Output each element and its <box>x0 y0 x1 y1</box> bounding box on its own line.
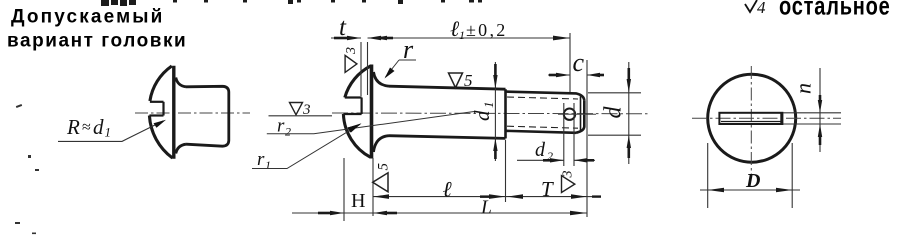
slot bottom line <box>361 98 363 115</box>
svg-text:L: L <box>480 198 492 219</box>
d ext top <box>588 92 641 94</box>
T left arrow <box>507 194 523 199</box>
svg-text:вариант головки: вариант головки <box>7 31 187 52</box>
svg-text:d: d <box>601 106 627 119</box>
shoulder step <box>504 89 507 138</box>
variant slot bottom line <box>162 102 164 116</box>
d1 dim line <box>494 62 496 161</box>
r1 underline and leader <box>252 125 360 169</box>
d bottom arrow <box>627 135 631 148</box>
svg-text:3: 3 <box>344 47 359 55</box>
slot top edge <box>345 96 362 98</box>
scan specks <box>15 104 39 234</box>
svg-text:d: d <box>535 139 546 161</box>
D ext line left <box>707 143 709 208</box>
cotter hole <box>564 109 575 120</box>
ext line bearing bottom <box>372 158 374 216</box>
ext line t left <box>360 42 362 96</box>
svg-text:5: 5 <box>464 71 473 90</box>
hidden line bottom <box>507 126 578 128</box>
variant shank bottom edge <box>186 141 229 147</box>
D left arrow <box>708 188 724 193</box>
r1 arrowhead <box>348 123 362 132</box>
D right arrow <box>776 188 792 193</box>
svg-text:H: H <box>351 190 365 212</box>
d1 bottom arrow <box>493 138 497 151</box>
svg-text:2: 2 <box>547 149 553 163</box>
svg-text:c: c <box>573 48 585 77</box>
c right arrow <box>587 73 600 77</box>
d dim line <box>628 62 630 164</box>
svg-text:1: 1 <box>459 28 465 42</box>
svg-text:2: 2 <box>285 125 291 139</box>
end face chamfer line <box>580 96 582 130</box>
d top arrow <box>627 79 631 93</box>
head bearing face <box>370 65 374 159</box>
shelf line <box>269 115 333 117</box>
H left arrow <box>330 211 344 215</box>
variant slot top edge <box>150 101 164 103</box>
dim line l1 <box>373 37 570 39</box>
svg-text:≈: ≈ <box>82 119 91 136</box>
T right arrow <box>571 194 587 199</box>
variant shank end face <box>227 92 230 141</box>
svg-text:t: t <box>339 14 347 41</box>
D ext line right <box>791 143 793 208</box>
variant top fillet <box>176 78 186 87</box>
c left arrow <box>556 73 570 77</box>
label R underline and leader <box>58 121 163 141</box>
svg-text:4: 4 <box>757 0 766 17</box>
right view vertical centerline <box>750 66 752 176</box>
right view horizontal centerline <box>692 117 841 119</box>
slot inner end tick <box>780 113 782 124</box>
rotated mark nabla5 under head <box>373 173 388 192</box>
l1 right arrow <box>553 36 570 41</box>
svg-text:1: 1 <box>265 158 271 172</box>
hole centerline <box>558 113 596 115</box>
slot lower edge <box>343 113 361 115</box>
H/L dim line <box>292 212 587 214</box>
head dome lower arc <box>343 114 370 157</box>
ext line l1 right / c left <box>569 33 571 92</box>
svg-text:n: n <box>791 83 816 94</box>
cropped text remnant row at top <box>101 0 482 6</box>
r2 underline and leader <box>267 112 474 134</box>
dim line t / l1 <box>331 37 361 39</box>
shank top line <box>389 86 506 89</box>
svg-text:R: R <box>66 115 80 139</box>
surface mark nabla3 with shelf <box>290 103 303 115</box>
slot inner bottom line <box>721 121 781 123</box>
n ext line top <box>783 112 841 114</box>
l right arrow <box>489 194 506 199</box>
ext line shoulder <box>505 140 507 202</box>
svg-text:3: 3 <box>561 171 576 179</box>
H right arrow <box>373 211 387 215</box>
l1 left arrow <box>373 36 387 40</box>
surface note: check mark <box>745 0 757 12</box>
label d rotated <box>601 106 627 119</box>
r2 arrowhead <box>348 124 362 133</box>
thin annotation lines <box>292 33 641 221</box>
label d1 rotated <box>470 102 496 122</box>
d2 ext right <box>573 103 575 166</box>
svg-text:1: 1 <box>105 125 112 140</box>
hidden line top <box>507 97 578 99</box>
label n rotated <box>791 83 816 94</box>
variant head dome lower arc <box>149 116 172 159</box>
svg-text:Допускаемый: Допускаемый <box>11 7 165 28</box>
L right arrow <box>570 211 587 216</box>
n top arrow <box>818 100 822 113</box>
T tail beyond <box>587 196 600 198</box>
svg-text:r: r <box>257 149 265 170</box>
svg-text:ℓ: ℓ <box>443 177 453 202</box>
slot rectangle <box>719 113 782 124</box>
svg-text:r: r <box>403 35 414 64</box>
variant bearing face <box>172 66 175 159</box>
ext line t right <box>367 42 369 95</box>
variant centerline <box>135 112 250 114</box>
variant slot lower edge <box>149 114 163 116</box>
t left arrow <box>347 36 361 40</box>
right section outer end <box>576 101 584 133</box>
D dim line <box>700 189 800 191</box>
r leader <box>399 59 416 61</box>
svg-text:±0,2: ±0,2 <box>466 20 508 40</box>
svg-text:остальное: остальное <box>779 0 891 20</box>
d2 dim line <box>517 159 564 161</box>
variant head dome <box>150 66 172 101</box>
l left arrow <box>373 194 389 199</box>
n ext line bottom <box>783 123 841 125</box>
head dome upper arc <box>345 66 371 98</box>
top fillet r <box>374 72 390 86</box>
t right arrow <box>368 36 382 40</box>
right section top edge <box>506 92 585 101</box>
n bottom arrow <box>818 124 822 137</box>
bottom fillet <box>374 136 390 152</box>
rotated mark nabla3 at T <box>562 176 575 193</box>
right section bottom edge <box>506 131 577 133</box>
svg-text:5: 5 <box>376 163 392 171</box>
d2 right arrow <box>574 158 587 162</box>
shank bottom line <box>389 136 506 139</box>
svg-text:d: d <box>93 115 104 139</box>
d ext bottom <box>588 134 641 136</box>
ext line right end <box>586 60 588 217</box>
leader arrowhead <box>154 120 167 128</box>
d2 ext left <box>563 103 565 166</box>
d1 top arrow <box>493 75 497 89</box>
dim line c <box>548 74 570 76</box>
d2 left arrow <box>550 158 564 162</box>
n dim line <box>819 68 821 152</box>
ext line head front <box>343 158 345 221</box>
variant shank top edge <box>186 86 229 92</box>
r leader arrowhead <box>385 68 395 79</box>
rotated mark nabla3 at t <box>345 55 357 72</box>
right view circle <box>708 74 796 162</box>
svg-text:D: D <box>745 170 760 192</box>
svg-text:T: T <box>541 177 554 201</box>
svg-text:1: 1 <box>481 102 496 109</box>
surface mark nabla5 on shank <box>449 73 463 88</box>
l/T dim line <box>373 196 587 198</box>
main centerline <box>332 112 648 115</box>
arrowheads <box>318 36 631 216</box>
variant bottom fillet <box>176 144 186 153</box>
